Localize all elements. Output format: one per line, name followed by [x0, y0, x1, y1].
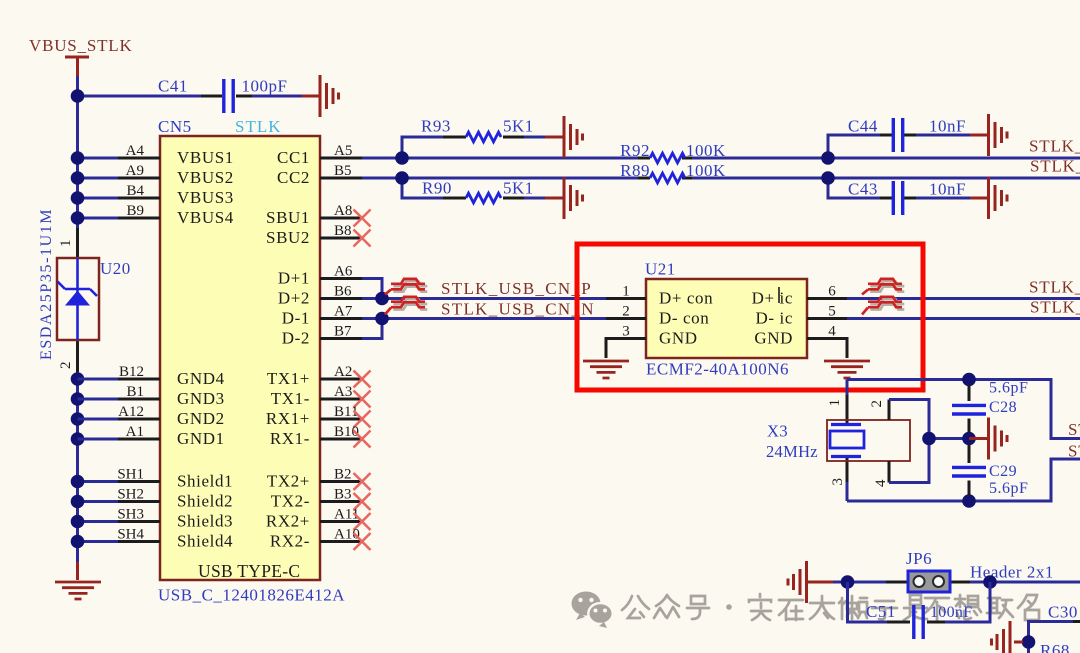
svg-text:D-2: D-2 [282, 329, 310, 348]
junction B12 [71, 372, 85, 386]
svg-text:R93: R93 [421, 117, 451, 136]
svg-text:A6: A6 [334, 264, 353, 280]
junction SH1 [71, 475, 85, 489]
svg-text:5K1: 5K1 [503, 117, 534, 136]
pin B8/SBU2 no-connect [266, 223, 370, 247]
svg-text:GND: GND [754, 329, 793, 348]
svg-text:10nF: 10nF [929, 117, 966, 136]
wire A9 [78, 177, 119, 180]
svg-text:R90: R90 [422, 179, 452, 198]
svg-text:ECMF2-40A100N6: ECMF2-40A100N6 [646, 360, 789, 379]
wire B12 [78, 378, 119, 381]
pin B1/GND3 [118, 384, 225, 408]
junction CC1/C44 [821, 151, 835, 165]
pin C30 lead [1073, 620, 1080, 623]
svg-text:SH1: SH1 [117, 467, 144, 483]
svg-text:ST: ST [1068, 420, 1080, 439]
svg-text:GND1: GND1 [177, 429, 225, 448]
power port VBUS_STLK [29, 36, 133, 76]
svg-text:Shield4: Shield4 [177, 532, 233, 551]
wire JP6 ground stub [807, 581, 834, 584]
svg-text:C29: C29 [989, 463, 1017, 480]
resistor R93 5K1 [421, 117, 534, 142]
wire D+ ic out [847, 297, 1080, 300]
svg-text:B3: B3 [334, 487, 352, 503]
capacitor C28 5.6pF [952, 380, 1028, 434]
wire SH2 [78, 500, 119, 503]
svg-text:VBUS_STLK: VBUS_STLK [29, 36, 133, 55]
wire crystal pin3 stub [846, 482, 849, 501]
wire CC2 row [362, 177, 1080, 180]
svg-text:D- con: D- con [659, 309, 709, 328]
svg-text:X3: X3 [767, 422, 788, 441]
pin 3 GND left [606, 324, 698, 359]
svg-text:C51: C51 [866, 602, 896, 621]
resistor R92 100K inline [620, 141, 726, 163]
svg-text:ESDA25P35-1U1M: ESDA25P35-1U1M [38, 208, 55, 360]
svg-text:SBU1: SBU1 [266, 208, 310, 227]
wire bus to ground stub [76, 562, 79, 580]
svg-text:B9: B9 [126, 203, 144, 219]
differential pair marker N right [862, 297, 904, 315]
svg-text:A9: A9 [126, 163, 144, 179]
svg-text:TX1+: TX1+ [267, 369, 310, 388]
capacitor C44 10nF [848, 117, 966, 153]
svg-text:C30: C30 [1048, 603, 1078, 622]
svg-text:A4: A4 [126, 143, 145, 159]
capacitor C43 10nF [848, 180, 966, 216]
svg-text:STLK_US: STLK_US [1029, 278, 1080, 297]
wire B4 [78, 197, 119, 200]
svg-text:R68: R68 [1040, 641, 1070, 653]
svg-text:D+ ic: D+ ic [752, 289, 793, 308]
pin B4/VBUS3 [118, 183, 234, 207]
svg-text:SH4: SH4 [117, 527, 144, 543]
ground crystal mid [989, 418, 1008, 460]
wire C44 branch [828, 135, 970, 158]
junction A1 [71, 432, 85, 446]
pin leads C41 [201, 95, 252, 98]
svg-text:2: 2 [869, 400, 885, 408]
connector CN5 USB TYPE-C [160, 136, 320, 580]
junction R68 node [1022, 635, 1036, 649]
svg-text:2: 2 [58, 362, 74, 370]
junction A12 [71, 412, 85, 426]
wire C41 row [78, 95, 303, 98]
pin 5 D- ic [756, 304, 847, 328]
svg-text:RX2+: RX2+ [266, 512, 310, 531]
wire C30 branch [1029, 622, 1074, 653]
ground JP6 left [788, 561, 807, 603]
svg-text:B1: B1 [126, 384, 144, 400]
svg-text:D- ic: D- ic [756, 309, 793, 328]
wire SH4 [78, 540, 119, 543]
svg-text:GND3: GND3 [177, 389, 225, 408]
svg-text:VBUS4: VBUS4 [177, 208, 234, 227]
pin 4 GND right [754, 324, 847, 359]
header JP6 2x1 [886, 549, 1054, 592]
ground R93 [564, 116, 583, 158]
svg-text:STLK_USB_CN_P: STLK_USB_CN_P [441, 279, 592, 298]
pin A1/GND1 [118, 424, 225, 448]
wire A4 [78, 157, 119, 160]
pin B7/D-2 [282, 324, 362, 348]
svg-text:RX1-: RX1- [270, 429, 310, 448]
ground C44 [989, 114, 1008, 156]
svg-text:B2: B2 [334, 467, 352, 483]
junction top rail C28 [962, 373, 976, 387]
wire CC1 row [362, 157, 1080, 160]
watermark wechat logo [572, 592, 613, 629]
svg-text:5: 5 [828, 304, 836, 320]
svg-text:Shield1: Shield1 [177, 472, 233, 491]
ground U21 pin4 [824, 361, 870, 378]
wire C43 branch [828, 178, 970, 198]
differential pair marker N left [385, 297, 427, 315]
svg-text:JP6: JP6 [906, 549, 932, 568]
svg-text:100nF: 100nF [930, 604, 972, 621]
wire B9 [78, 217, 119, 220]
svg-text:STLK_US: STLK_US [1030, 298, 1080, 317]
svg-text:C28: C28 [989, 399, 1017, 416]
pin 1 D+ con [606, 284, 713, 308]
capacitor C51 100nF [866, 602, 972, 639]
junction JP6 right [983, 575, 997, 589]
svg-text:100pF: 100pF [242, 77, 288, 96]
junction A4 [71, 151, 85, 165]
wire R90 to ground [545, 197, 563, 200]
svg-text:RX2-: RX2- [270, 532, 310, 551]
wire crystal top rail [847, 380, 1080, 439]
pin B12/GND4 [118, 364, 225, 388]
pin A11/RX2+ no-connect [266, 507, 371, 531]
wire crystal bottom rail [847, 459, 1080, 501]
svg-text:A12: A12 [118, 404, 144, 420]
junction JP6 left [841, 575, 855, 589]
svg-text:100K: 100K [686, 141, 726, 160]
differential pair marker P right [862, 279, 904, 295]
svg-text:D+2: D+2 [278, 289, 310, 308]
wire crystal pin1 stub [846, 380, 849, 396]
svg-text:R89: R89 [620, 161, 650, 180]
wire C43 to ground [970, 197, 987, 200]
op-amp U21 ECMF2-40A100N6 common mode filter [645, 260, 807, 379]
svg-text:U20: U20 [100, 259, 131, 278]
junction B1 [71, 392, 85, 406]
svg-text:VBUS1: VBUS1 [177, 148, 234, 167]
svg-text:5.6pF: 5.6pF [989, 380, 1028, 397]
svg-text:GND4: GND4 [177, 369, 225, 388]
wire JP6 right [970, 581, 1080, 584]
svg-text:4: 4 [873, 479, 889, 487]
svg-text:2: 2 [622, 304, 630, 320]
pin A6/D+1 [278, 264, 362, 288]
wire VBUS vertical bus [76, 76, 79, 562]
pin B11/RX1+ no-connect [266, 404, 371, 428]
svg-text:TX2-: TX2- [271, 492, 310, 511]
capacitor C29 5.6pF [952, 444, 1028, 497]
svg-text:D+ con: D+ con [659, 289, 713, 308]
differential pair marker P left [385, 279, 427, 295]
svg-text:5K1: 5K1 [503, 179, 534, 198]
wire crystal case bracket [889, 400, 969, 483]
wire SH3 [78, 520, 119, 523]
svg-text:24MHz: 24MHz [766, 442, 818, 461]
pin B3/TX2- no-connect [271, 487, 371, 511]
svg-text:SH3: SH3 [117, 507, 144, 523]
pin A5/CC1 [277, 143, 362, 167]
junction SH3 [71, 515, 85, 529]
pin SH2/Shield2 [117, 487, 233, 511]
junction cap mid [962, 432, 976, 446]
pin A4/VBUS1 [118, 143, 234, 167]
wire A12 [78, 418, 119, 421]
junction SH4 [71, 535, 85, 549]
watermark text gongzhonghao [622, 594, 1039, 620]
wire JP6 left [833, 581, 886, 584]
svg-text:CC1: CC1 [277, 148, 310, 167]
pin 2 D- con [606, 304, 709, 328]
svg-text:A3: A3 [334, 384, 352, 400]
junction bracket mid [922, 432, 936, 446]
resistor R90 5K1 [422, 179, 534, 203]
svg-text:A8: A8 [334, 203, 352, 219]
wire B1 [78, 398, 119, 401]
wire R93 branch [402, 137, 545, 158]
svg-text:VBUS2: VBUS2 [177, 168, 234, 187]
wire net STLK_USB_CN_P [362, 297, 606, 300]
pin B10/RX1- no-connect [270, 424, 371, 448]
svg-text:D+1: D+1 [278, 269, 310, 288]
svg-text:R92: R92 [620, 141, 650, 160]
svg-text:CN5: CN5 [158, 117, 192, 136]
svg-text:1: 1 [827, 399, 843, 407]
svg-text:USB TYPE-C: USB TYPE-C [198, 561, 300, 581]
svg-text:TX1-: TX1- [271, 389, 310, 408]
svg-text:4: 4 [828, 324, 836, 340]
svg-text:A2: A2 [334, 364, 352, 380]
junction B6 [375, 292, 389, 306]
pin B6/D+2 [278, 284, 362, 308]
svg-text:B12: B12 [119, 364, 144, 380]
pin A8/SBU1 no-connect [266, 203, 370, 227]
pin A10/RX2- no-connect [270, 527, 371, 551]
svg-text:B6: B6 [334, 284, 352, 300]
svg-text:1: 1 [622, 284, 630, 300]
svg-text:Header 2x1: Header 2x1 [970, 563, 1054, 582]
capacitor C41 [158, 77, 287, 114]
ground R90 [564, 177, 583, 219]
svg-text:STLK_RX: STLK_RX [1030, 157, 1080, 176]
wire R93 to ground [545, 136, 563, 139]
pin B9/VBUS4 [118, 203, 234, 227]
junction CC2/R90 [395, 171, 409, 185]
ground C41 [320, 75, 339, 117]
pin A7/D-1 [282, 304, 362, 328]
svg-text:SH2: SH2 [117, 487, 144, 503]
svg-text:A5: A5 [334, 143, 352, 159]
wire C51 loop [848, 582, 991, 622]
svg-text:Shield2: Shield2 [177, 492, 233, 511]
svg-text:B5: B5 [334, 163, 352, 179]
svg-text:B8: B8 [334, 223, 352, 239]
ground R68 node [992, 621, 1011, 653]
junction B9 [71, 211, 85, 225]
svg-text:C41: C41 [158, 77, 188, 96]
svg-text:SBU2: SBU2 [266, 228, 310, 247]
pin SH1/Shield1 [117, 467, 233, 491]
pin A9/VBUS2 [118, 163, 234, 187]
svg-text:D-1: D-1 [282, 309, 310, 328]
junction A7 [375, 312, 389, 326]
svg-text:STLK_USB_CN_N: STLK_USB_CN_N [441, 300, 595, 319]
svg-text:U21: U21 [645, 260, 676, 279]
ground C43 [989, 177, 1008, 219]
svg-text:CC2: CC2 [277, 168, 310, 187]
wire R68 ground stub [1014, 641, 1023, 644]
svg-text:RX1+: RX1+ [266, 409, 310, 428]
svg-text:5.6pF: 5.6pF [989, 480, 1028, 497]
svg-text:STLK: STLK [235, 117, 282, 136]
wire D- ic out [847, 317, 1080, 320]
svg-text:A1: A1 [126, 424, 144, 440]
svg-text:C44: C44 [848, 117, 878, 136]
junction C41 tap [71, 89, 85, 103]
pin B5/CC2 [277, 163, 362, 187]
wire C44 to ground [970, 134, 987, 137]
svg-text:USB_C_12401826E412A: USB_C_12401826E412A [158, 586, 345, 605]
junction CC1/R93 [395, 151, 409, 165]
svg-text:B4: B4 [126, 183, 144, 199]
pin 2 crystal case [888, 400, 891, 421]
ground bus bottom [55, 582, 101, 599]
junction A9 [71, 171, 85, 185]
wire C41 to ground [302, 95, 319, 98]
junction CC2/C43 [821, 171, 835, 185]
junction bottom rail C29 [962, 494, 976, 508]
pin A2/TX1+ no-connect [267, 364, 371, 388]
pin 4 crystal case [888, 461, 891, 483]
pin A3/TX1- no-connect [271, 384, 371, 408]
svg-text:6: 6 [828, 284, 836, 300]
svg-text:Shield3: Shield3 [177, 512, 233, 531]
wire SH1 [78, 480, 119, 483]
wire net STLK_USB_CN_N [362, 317, 606, 320]
svg-text:GND2: GND2 [177, 409, 225, 428]
svg-text:GND: GND [659, 329, 698, 348]
pin B2/TX2+ no-connect [267, 467, 371, 491]
junction SH2 [71, 495, 85, 509]
svg-text:3: 3 [622, 324, 630, 340]
transistor U20 ESDA25P35-1U1M TVS diode [38, 208, 131, 372]
crystal X3 24MHz [766, 395, 910, 487]
pin SH3/Shield3 [117, 507, 233, 531]
svg-text:ST: ST [1068, 442, 1080, 461]
pin A12/GND2 [118, 404, 225, 428]
svg-text:1: 1 [58, 240, 74, 248]
pin SH4/Shield4 [117, 527, 233, 551]
svg-text:TX2+: TX2+ [267, 472, 310, 491]
wire R90 branch [402, 178, 545, 198]
svg-text:3: 3 [830, 478, 846, 486]
svg-text:10nF: 10nF [929, 180, 966, 199]
resistor R89 100K inline [620, 161, 726, 183]
svg-text:A7: A7 [334, 304, 353, 320]
highlight red rectangle [577, 244, 923, 390]
svg-text:B7: B7 [334, 324, 352, 340]
wire A1 [78, 438, 119, 441]
svg-text:STLK_TX: STLK_TX [1029, 137, 1080, 156]
junction B4 [71, 191, 85, 205]
pin 6 D+ ic [752, 284, 847, 308]
wire A6 to B6 junction [362, 279, 382, 299]
wire B7 to A7 junction [362, 319, 382, 339]
svg-text:C43: C43 [848, 180, 878, 199]
wire mid to ground [969, 437, 987, 440]
svg-text:100K: 100K [686, 161, 726, 180]
svg-text:VBUS3: VBUS3 [177, 188, 234, 207]
ground U21 pin3 [583, 361, 629, 378]
